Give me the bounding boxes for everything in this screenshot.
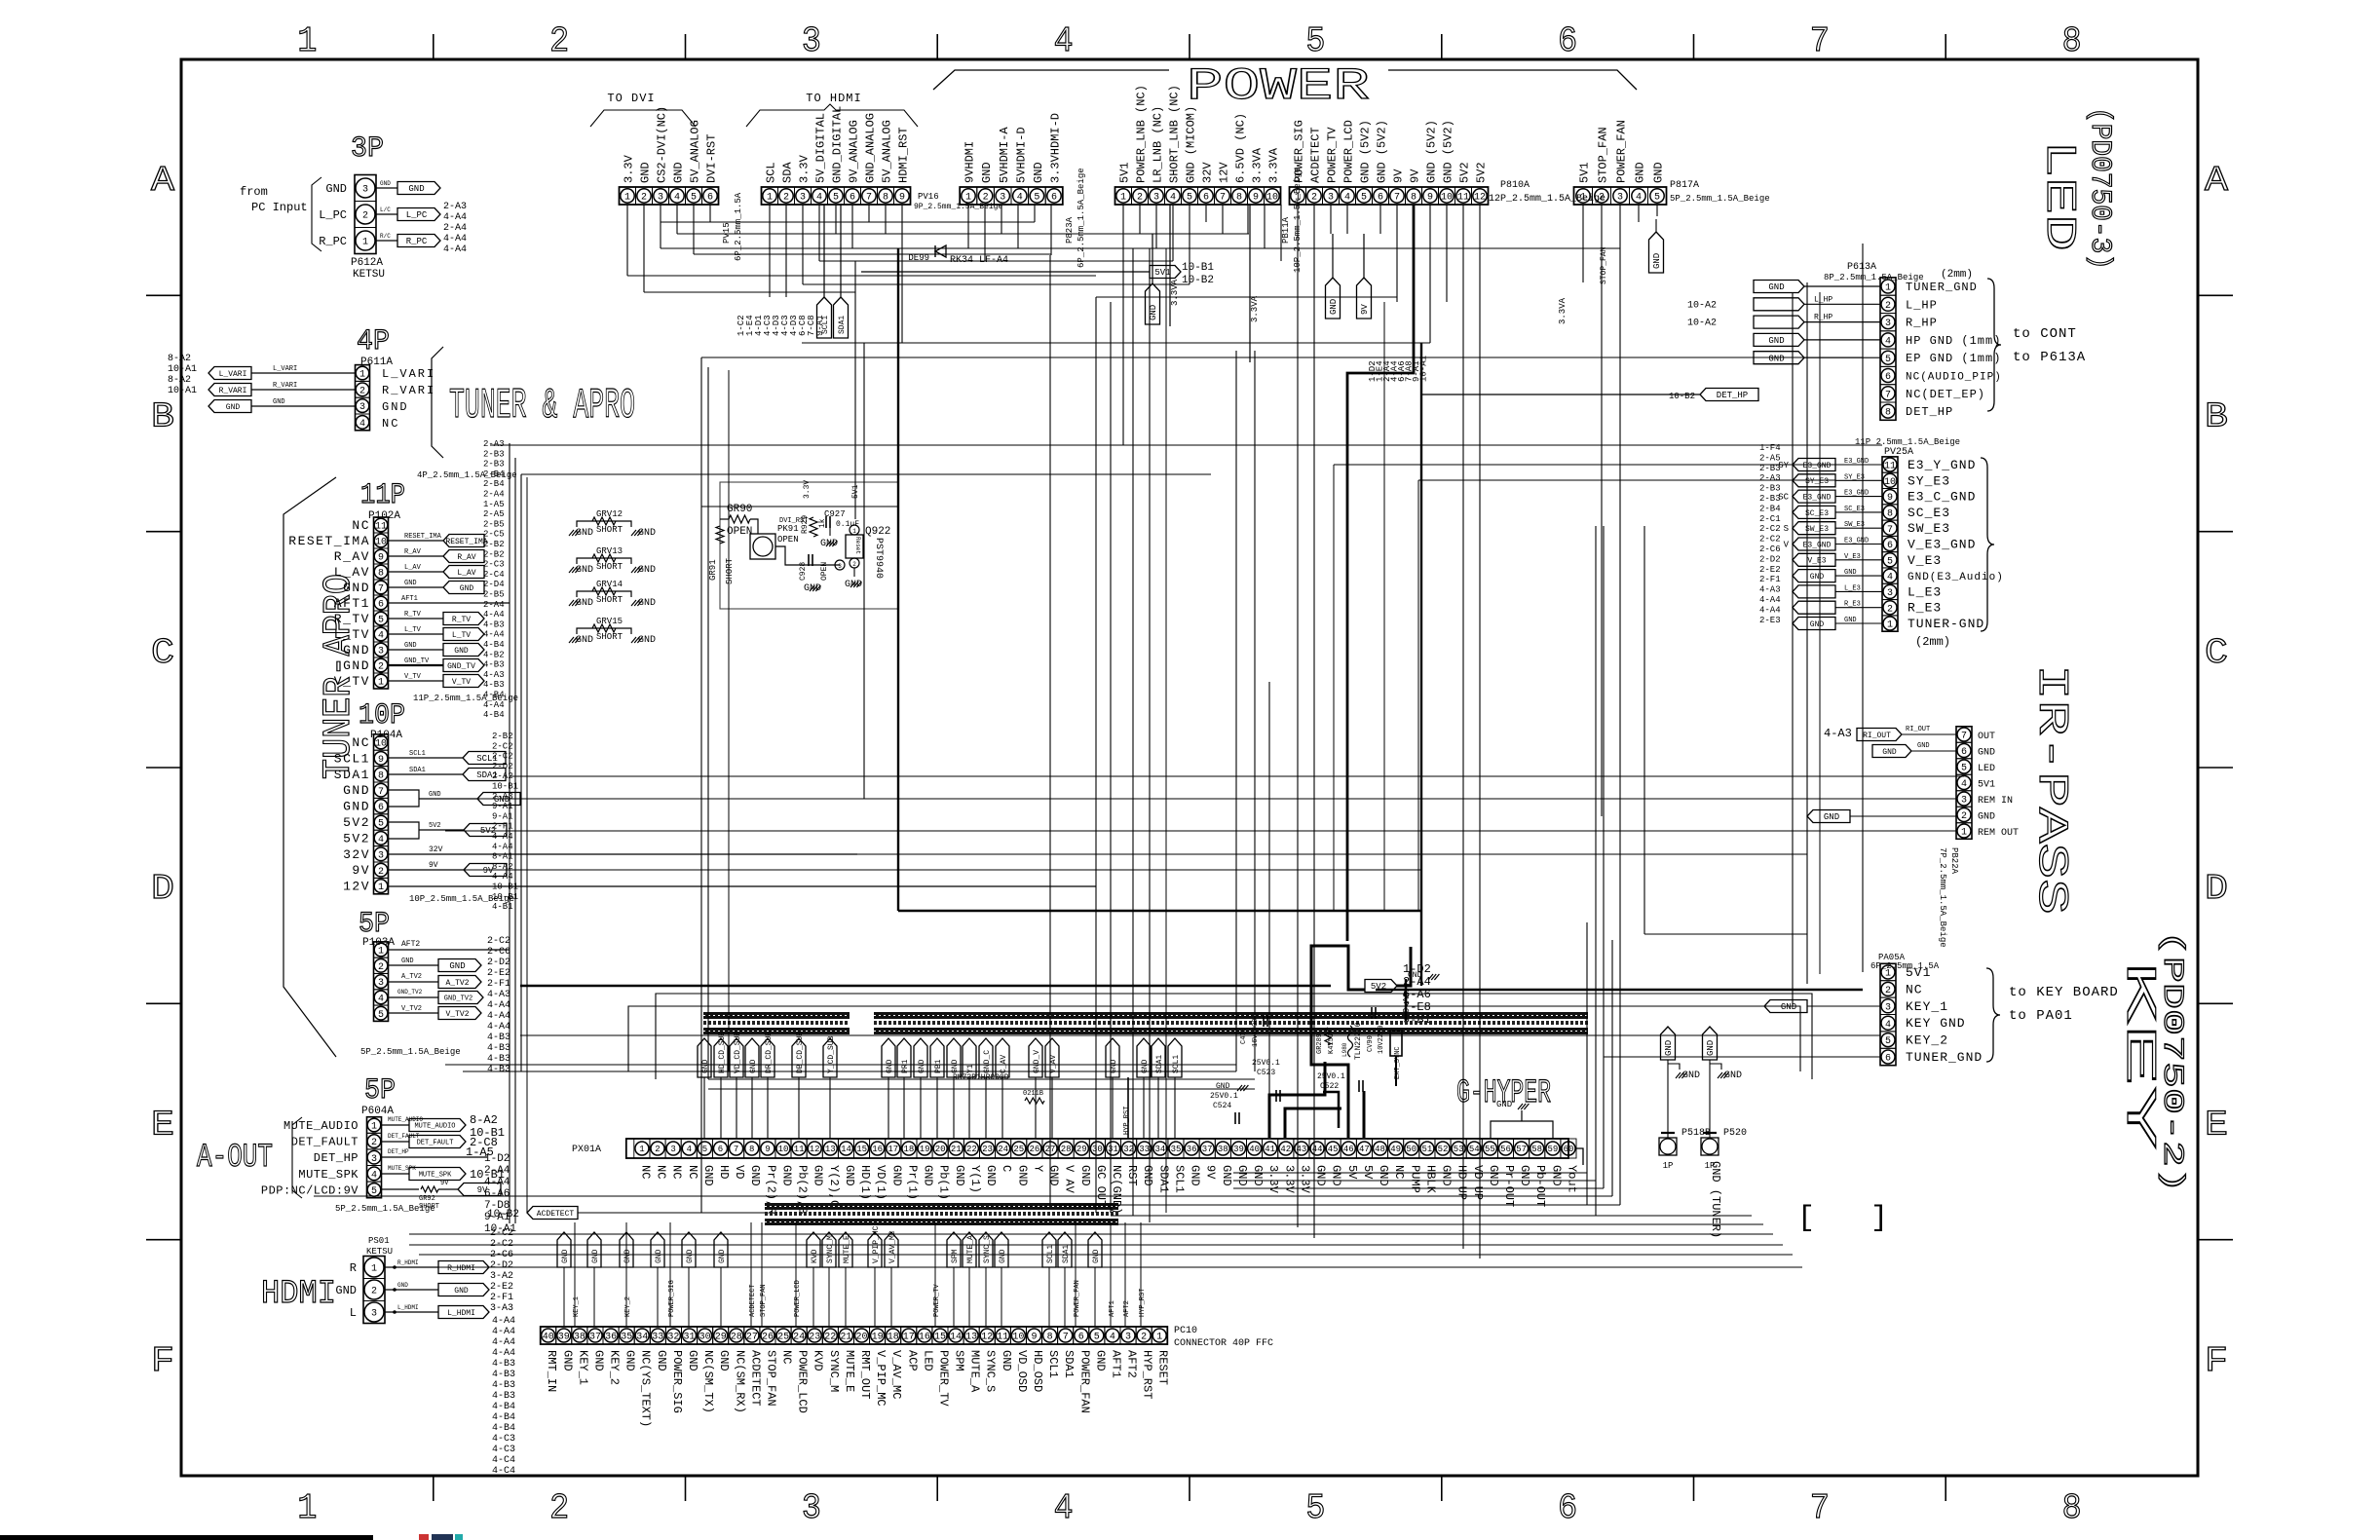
svg-text:C524: C524 bbox=[1213, 1102, 1231, 1110]
svg-text:]: ] bbox=[1870, 1202, 1888, 1235]
svg-text:5: 5 bbox=[833, 193, 839, 204]
svg-text:V_TV2: V_TV2 bbox=[401, 1005, 422, 1013]
connector P810A 12P bbox=[1290, 120, 1606, 205]
svg-text:8: 8 bbox=[378, 569, 384, 580]
svg-text:3.3V: 3.3V bbox=[798, 154, 812, 183]
svg-text:26: 26 bbox=[1029, 1145, 1039, 1154]
svg-text:RESET_IMA: RESET_IMA bbox=[445, 538, 487, 546]
svg-text:7: 7 bbox=[1885, 390, 1891, 400]
svg-text:ACP: ACP bbox=[905, 1350, 919, 1371]
svg-text:8: 8 bbox=[1885, 408, 1891, 419]
svg-text:14: 14 bbox=[841, 1145, 851, 1154]
svg-text:GND: GND bbox=[449, 961, 465, 971]
svg-text:4-C4: 4-C4 bbox=[492, 1466, 515, 1477]
svg-text:4: 4 bbox=[1636, 193, 1642, 204]
svg-text:38: 38 bbox=[574, 1333, 586, 1343]
svg-text:4: 4 bbox=[1887, 573, 1893, 583]
svg-text:GND: GND bbox=[1496, 1100, 1512, 1109]
svg-text:22: 22 bbox=[966, 1145, 977, 1154]
svg-text:C522: C522 bbox=[1320, 1082, 1339, 1091]
svg-text:R_AV: R_AV bbox=[457, 553, 475, 562]
svg-text:26: 26 bbox=[762, 1333, 774, 1343]
svg-text:GRV13: GRV13 bbox=[596, 546, 623, 556]
svg-text:12P_2.5mm_1.5A_Beige: 12P_2.5mm_1.5A_Beige bbox=[1489, 193, 1606, 205]
svg-text:GND (5V2): GND (5V2) bbox=[1425, 120, 1439, 183]
svg-text:SC_E3: SC_E3 bbox=[1805, 509, 1829, 518]
svg-text:1: 1 bbox=[359, 370, 365, 381]
svg-text:Pr-OUT: Pr-OUT bbox=[1502, 1165, 1516, 1207]
svg-text:5V_DIGITAL: 5V_DIGITAL bbox=[814, 113, 828, 183]
svg-text:7-D8: 7-D8 bbox=[484, 1200, 510, 1212]
svg-text:GND: GND bbox=[1047, 1165, 1061, 1186]
svg-text:35: 35 bbox=[1171, 1145, 1182, 1154]
svg-text:GND: GND bbox=[1000, 1350, 1013, 1371]
svg-text:ACDETECT: ACDETECT bbox=[749, 1284, 757, 1317]
svg-text:V_E3_GND: V_E3_GND bbox=[1908, 538, 1976, 552]
svg-text:10: 10 bbox=[1266, 193, 1278, 204]
svg-text:9VHDMI: 9VHDMI bbox=[963, 141, 977, 183]
svg-text:AFT2: AFT2 bbox=[1125, 1350, 1139, 1378]
svg-text:NC: NC bbox=[1392, 1165, 1406, 1179]
svg-text:3P: 3P bbox=[351, 132, 384, 166]
title POWER bbox=[933, 61, 1637, 112]
svg-text:POWER_TV: POWER_TV bbox=[933, 1284, 941, 1317]
svg-text:3: 3 bbox=[1125, 1333, 1131, 1343]
svg-text:1: 1 bbox=[1885, 283, 1891, 294]
svg-text:3.3VA: 3.3VA bbox=[1267, 147, 1281, 183]
svg-text:L_TV: L_TV bbox=[404, 626, 422, 634]
title KEY (PD0750-2) bbox=[2114, 930, 2188, 1193]
svg-text:7P_2.5mm_1.5A_Beige: 7P_2.5mm_1.5A_Beige bbox=[1938, 847, 1947, 948]
svg-text:4: 4 bbox=[1170, 193, 1176, 204]
svg-text:34: 34 bbox=[1154, 1145, 1165, 1154]
svg-text:SY_E3: SY_E3 bbox=[1844, 473, 1865, 481]
svg-text:GND: GND bbox=[460, 584, 474, 593]
svg-text:E3_GND: E3_GND bbox=[1844, 458, 1869, 466]
svg-text:GND: GND bbox=[686, 1249, 695, 1263]
svg-text:SCL: SCL bbox=[765, 162, 778, 183]
svg-text:SCL1: SCL1 bbox=[1172, 1055, 1181, 1073]
svg-text:GND: GND bbox=[1634, 162, 1647, 183]
svg-text:GND_V: GND_V bbox=[1033, 1050, 1041, 1073]
FFC cable band lower bbox=[765, 1203, 1118, 1225]
svg-text:IR-PASS: IR-PASS bbox=[2026, 664, 2075, 915]
svg-text:10-A2: 10-A2 bbox=[1687, 319, 1717, 329]
svg-text:GND_TV2: GND_TV2 bbox=[444, 995, 472, 1003]
svg-text:GND_TV: GND_TV bbox=[447, 662, 475, 671]
svg-text:3.3V: 3.3V bbox=[623, 154, 636, 183]
svg-text:16: 16 bbox=[919, 1333, 930, 1343]
svg-text:4-B3: 4-B3 bbox=[492, 1380, 515, 1391]
svg-text:4-A4: 4-A4 bbox=[443, 212, 467, 223]
svg-text:5: 5 bbox=[1094, 1333, 1100, 1343]
svg-text:9: 9 bbox=[1427, 193, 1433, 204]
svg-text:GND: GND bbox=[820, 539, 838, 549]
svg-text:GND: GND bbox=[672, 162, 686, 183]
svg-text:1: 1 bbox=[371, 1122, 377, 1133]
svg-text:2: 2 bbox=[783, 193, 789, 204]
svg-text:4: 4 bbox=[1054, 1488, 1074, 1528]
svg-text:GND: GND bbox=[343, 643, 370, 657]
svg-text:V_E3: V_E3 bbox=[1807, 557, 1826, 566]
svg-text:3: 3 bbox=[359, 402, 365, 413]
svg-text:4-A4: 4-A4 bbox=[483, 700, 505, 710]
connector PC10 40P FFC bbox=[541, 1326, 1273, 1427]
svg-text:2-D4: 2-D4 bbox=[483, 580, 505, 589]
svg-text:25: 25 bbox=[777, 1333, 789, 1343]
svg-text:8: 8 bbox=[378, 770, 384, 781]
svg-text:SCL1: SCL1 bbox=[821, 316, 830, 334]
svg-text:V_AV_MC: V_AV_MC bbox=[888, 1230, 897, 1263]
svg-text:2-C1: 2-C1 bbox=[1759, 514, 1781, 524]
svg-text:2-A3: 2-A3 bbox=[443, 202, 467, 212]
svg-text:GND: GND bbox=[812, 1165, 825, 1186]
svg-text:REM OUT: REM OUT bbox=[1978, 828, 2019, 839]
svg-text:9: 9 bbox=[378, 755, 384, 766]
svg-text:NC: NC bbox=[780, 1350, 794, 1364]
svg-text:SW_E3: SW_E3 bbox=[1908, 521, 1950, 536]
svg-text:8-A2: 8-A2 bbox=[168, 375, 191, 386]
wire mesh (power/signal routing) bbox=[314, 205, 1964, 1267]
svg-text:10: 10 bbox=[375, 739, 387, 750]
svg-text:GND: GND bbox=[845, 580, 862, 590]
svg-text:4: 4 bbox=[816, 193, 822, 204]
svg-text:3-A2: 3-A2 bbox=[490, 1271, 513, 1282]
connector P604A 5P (A-OUT) bbox=[261, 1074, 505, 1214]
svg-text:HD: HD bbox=[717, 1165, 731, 1179]
svg-text:F: F bbox=[2205, 1341, 2228, 1381]
svg-text:GND: GND bbox=[1015, 1165, 1029, 1186]
svg-text:4: 4 bbox=[1344, 193, 1350, 204]
svg-text:56: 56 bbox=[1500, 1145, 1511, 1154]
svg-text:L_TV: L_TV bbox=[452, 631, 471, 640]
svg-text:GND: GND bbox=[984, 1165, 998, 1186]
svg-text:7: 7 bbox=[1961, 732, 1967, 742]
svg-text:32: 32 bbox=[1123, 1145, 1134, 1154]
svg-text:(PD0750-2): (PD0750-2) bbox=[2155, 930, 2188, 1193]
svg-text:2-A5: 2-A5 bbox=[1759, 453, 1781, 463]
svg-text:25V0.1: 25V0.1 bbox=[1252, 1059, 1280, 1068]
svg-text:5P_2.5mm_1.5A_Beige: 5P_2.5mm_1.5A_Beige bbox=[360, 1047, 461, 1057]
svg-text:31: 31 bbox=[683, 1333, 695, 1343]
svg-text:MUTE_E: MUTE_E bbox=[843, 1350, 856, 1392]
svg-text:6: 6 bbox=[1078, 1333, 1084, 1343]
svg-text:GND: GND bbox=[226, 403, 241, 412]
svg-text:2: 2 bbox=[549, 1488, 569, 1528]
svg-text:GND: GND bbox=[343, 783, 370, 798]
svg-text:AFT1: AFT1 bbox=[334, 596, 370, 611]
svg-text:27: 27 bbox=[746, 1333, 758, 1343]
svg-text:SW_E3: SW_E3 bbox=[1805, 525, 1829, 534]
svg-text:4-A4: 4-A4 bbox=[443, 234, 467, 244]
svg-text:19: 19 bbox=[920, 1145, 930, 1154]
svg-text:GND: GND bbox=[638, 528, 656, 539]
svg-text:S: S bbox=[1784, 524, 1789, 534]
svg-text:F: F bbox=[151, 1341, 174, 1381]
svg-text:5: 5 bbox=[1187, 193, 1192, 204]
svg-text:C_AV: C_AV bbox=[1000, 1055, 1008, 1073]
svg-text:RESET_IMA: RESET_IMA bbox=[288, 534, 370, 548]
svg-text:GND: GND bbox=[701, 1165, 715, 1186]
svg-text:GND: GND bbox=[843, 1165, 856, 1186]
svg-text:L_VARI: L_VARI bbox=[382, 367, 435, 381]
svg-text:1P: 1P bbox=[1663, 1161, 1674, 1171]
svg-text:3: 3 bbox=[670, 1145, 675, 1154]
svg-text:3: 3 bbox=[1885, 319, 1891, 329]
svg-text:MUTE_AUDIO: MUTE_AUDIO bbox=[388, 1116, 423, 1123]
svg-text:GND: GND bbox=[889, 1165, 903, 1186]
svg-text:4-A4: 4-A4 bbox=[1759, 595, 1781, 605]
svg-text:POWER_LNB (NC): POWER_LNB (NC) bbox=[1135, 85, 1149, 183]
svg-text:2: 2 bbox=[1885, 986, 1891, 996]
svg-text:STOP_FAN: STOP_FAN bbox=[1600, 246, 1608, 284]
svg-text:2: 2 bbox=[378, 662, 384, 673]
svg-text:8: 8 bbox=[749, 1145, 754, 1154]
svg-text:3: 3 bbox=[802, 1488, 821, 1528]
svg-text:VD_OSD: VD_OSD bbox=[1015, 1350, 1029, 1392]
svg-text:5: 5 bbox=[1885, 355, 1891, 365]
svg-text:4-B3: 4-B3 bbox=[487, 1065, 510, 1075]
svg-text:R_E3: R_E3 bbox=[1844, 601, 1861, 609]
svg-text:13: 13 bbox=[825, 1145, 836, 1154]
svg-text:50: 50 bbox=[1406, 1145, 1417, 1154]
svg-text:GND: GND bbox=[1549, 1165, 1563, 1186]
svg-text:CV90: CV90 bbox=[1367, 1035, 1375, 1052]
svg-text:MUTE_SPK: MUTE_SPK bbox=[419, 1172, 452, 1180]
svg-text:L_AV: L_AV bbox=[404, 564, 422, 572]
svg-text:DB_CD_SUB: DB_CD_SUB bbox=[796, 1032, 805, 1073]
svg-text:R_AV: R_AV bbox=[404, 548, 422, 556]
svg-text:SDA1: SDA1 bbox=[409, 767, 426, 774]
svg-text:1: 1 bbox=[1580, 193, 1586, 204]
svg-text:RESET: RESET bbox=[1156, 1350, 1170, 1385]
svg-text:Y(2),G: Y(2),G bbox=[827, 1165, 841, 1207]
svg-text:4: 4 bbox=[371, 1170, 377, 1181]
svg-text:HDMI: HDMI bbox=[261, 1276, 336, 1313]
connector P102A 11P bbox=[288, 479, 518, 703]
svg-text:PV16: PV16 bbox=[918, 192, 939, 202]
svg-text:R_HDMI: R_HDMI bbox=[397, 1259, 419, 1266]
svg-text:V_TV: V_TV bbox=[452, 678, 471, 687]
svg-text:OPEN: OPEN bbox=[727, 526, 752, 538]
svg-text:GND: GND bbox=[1682, 1070, 1700, 1081]
svg-text:10-A1: 10-A1 bbox=[168, 386, 197, 396]
svg-text:RI_OUT: RI_OUT bbox=[1906, 726, 1930, 733]
svg-text:SCL1: SCL1 bbox=[409, 750, 426, 758]
svg-text:8: 8 bbox=[2062, 21, 2082, 61]
svg-text:39: 39 bbox=[1233, 1145, 1244, 1154]
svg-text:2: 2 bbox=[359, 386, 365, 396]
svg-text:R_HDMI: R_HDMI bbox=[447, 1264, 475, 1273]
svg-text:D: D bbox=[2205, 869, 2228, 909]
svg-text:12: 12 bbox=[981, 1333, 993, 1343]
net reference column (center right) bbox=[1368, 356, 1429, 382]
svg-text:DET_HP: DET_HP bbox=[1717, 391, 1748, 400]
svg-text:V: V bbox=[1784, 541, 1790, 550]
svg-text:2-A4: 2-A4 bbox=[483, 600, 505, 610]
svg-text:54: 54 bbox=[1469, 1145, 1480, 1154]
svg-text:7: 7 bbox=[1810, 21, 1830, 61]
resistor network GRV14 SHORT bbox=[569, 580, 656, 609]
svg-text:1: 1 bbox=[852, 528, 856, 535]
svg-text:GND: GND bbox=[1440, 1165, 1454, 1186]
svg-text:GND: GND bbox=[1768, 282, 1784, 292]
svg-text:SPM: SPM bbox=[953, 1350, 966, 1371]
svg-text:R_TV: R_TV bbox=[404, 611, 422, 619]
svg-text:58: 58 bbox=[1531, 1145, 1542, 1154]
svg-text:2-E2: 2-E2 bbox=[490, 1282, 513, 1293]
svg-text:9: 9 bbox=[1887, 493, 1893, 504]
svg-text:5V1: 5V1 bbox=[1154, 268, 1170, 278]
svg-text:9: 9 bbox=[378, 553, 384, 564]
svg-text:GND: GND bbox=[748, 1165, 762, 1186]
svg-text:A: A bbox=[151, 161, 174, 201]
svg-text:HD UP: HD UP bbox=[1455, 1165, 1469, 1200]
svg-text:6: 6 bbox=[1558, 1488, 1577, 1528]
svg-text:53: 53 bbox=[1454, 1145, 1464, 1154]
svg-text:L_HDMI: L_HDMI bbox=[447, 1309, 475, 1318]
svg-text:GND: GND bbox=[429, 791, 441, 799]
svg-text:HYP_RST: HYP_RST bbox=[1123, 1107, 1131, 1135]
svg-text:5V1: 5V1 bbox=[1906, 965, 1931, 980]
svg-text:GND (5V2): GND (5V2) bbox=[1359, 120, 1373, 183]
svg-text:A-OUT: A-OUT bbox=[197, 1140, 273, 1177]
svg-text:57: 57 bbox=[1516, 1145, 1527, 1154]
svg-text:18: 18 bbox=[903, 1145, 914, 1154]
svg-text:CONNECTOR 40P FFC: CONNECTOR 40P FFC bbox=[1174, 1338, 1273, 1349]
svg-text:2-B3: 2-B3 bbox=[483, 460, 505, 470]
svg-text:2-C2: 2-C2 bbox=[487, 936, 510, 947]
svg-text:GND_TV: GND_TV bbox=[404, 657, 430, 665]
svg-text:4-B3: 4-B3 bbox=[483, 660, 505, 670]
svg-text:GND: GND bbox=[343, 658, 370, 673]
svg-text:L980: L980 bbox=[1341, 1042, 1348, 1057]
svg-text:10-B1: 10-B1 bbox=[1182, 262, 1214, 274]
svg-text:DET_HP: DET_HP bbox=[314, 1151, 359, 1165]
svg-text:7: 7 bbox=[866, 193, 872, 204]
svg-text:6: 6 bbox=[1887, 541, 1893, 551]
svg-text:2: 2 bbox=[362, 211, 368, 222]
svg-text:GND: GND bbox=[623, 1249, 632, 1263]
svg-text:2-B3: 2-B3 bbox=[1759, 494, 1781, 504]
svg-text:6: 6 bbox=[378, 803, 384, 813]
svg-text:46: 46 bbox=[1343, 1145, 1354, 1154]
svg-text:GND: GND bbox=[953, 1165, 966, 1186]
svg-text:V_E3: V_E3 bbox=[1908, 553, 1942, 568]
svg-text:GND: GND bbox=[408, 184, 424, 194]
svg-text:16V1000: 16V1000 bbox=[1252, 1019, 1260, 1047]
svg-text:4-B3: 4-B3 bbox=[492, 1391, 515, 1402]
svg-text:CS2-DVI(NC): CS2-DVI(NC) bbox=[656, 106, 669, 183]
svg-text:9V: 9V bbox=[1392, 169, 1406, 183]
svg-text:Y(1): Y(1) bbox=[968, 1165, 982, 1193]
svg-text:P817A: P817A bbox=[1670, 180, 1699, 191]
svg-text:4-A4: 4-A4 bbox=[483, 630, 505, 640]
svg-text:(2mm): (2mm) bbox=[1941, 269, 1973, 281]
svg-text:2-C3: 2-C3 bbox=[483, 560, 505, 570]
svg-text:4-B3: 4-B3 bbox=[492, 1370, 515, 1380]
svg-text:1: 1 bbox=[1120, 193, 1126, 204]
flag GND below P810A bbox=[1326, 234, 1341, 319]
svg-text:R: R bbox=[350, 1261, 357, 1275]
svg-text:MUTE_SPK: MUTE_SPK bbox=[298, 1168, 359, 1182]
push button P520 bbox=[1701, 1027, 1747, 1171]
svg-text:NC(AUDIO_PIP): NC(AUDIO_PIP) bbox=[1906, 372, 2002, 384]
flag 5V2 with references bbox=[1365, 962, 1431, 1027]
svg-text:GND: GND bbox=[1781, 1002, 1796, 1012]
svg-text:C: C bbox=[151, 633, 174, 673]
svg-text:1: 1 bbox=[297, 21, 317, 61]
title TUNER & APRO bbox=[432, 347, 635, 458]
svg-text:SHORT: SHORT bbox=[725, 557, 735, 584]
svg-text:4-A3: 4-A3 bbox=[483, 670, 505, 680]
svg-text:5P_2.5mm_1.5A_Beige: 5P_2.5mm_1.5A_Beige bbox=[335, 1204, 435, 1214]
svg-text:1: 1 bbox=[624, 193, 630, 204]
svg-text:P823A: P823A bbox=[1065, 216, 1075, 244]
svg-text:TUNER_GND: TUNER_GND bbox=[1906, 281, 1978, 294]
svg-text:7: 7 bbox=[378, 787, 384, 798]
svg-text:PS01: PS01 bbox=[368, 1236, 390, 1246]
resistor network GRV12 SHORT bbox=[569, 509, 656, 539]
svg-text:9V_ANALOG: 9V_ANALOG bbox=[848, 120, 861, 183]
svg-text:MUTE_A: MUTE_A bbox=[968, 1350, 982, 1393]
svg-text:GND: GND bbox=[1032, 162, 1045, 183]
svg-text:KEY_1: KEY_1 bbox=[1906, 999, 1948, 1014]
svg-text:P613A: P613A bbox=[1847, 262, 1876, 273]
svg-text:L/C: L/C bbox=[380, 207, 391, 213]
svg-text:GND_ANALOG: GND_ANALOG bbox=[864, 113, 878, 183]
svg-text:1: 1 bbox=[378, 883, 384, 893]
svg-text:4-A4: 4-A4 bbox=[487, 1000, 510, 1011]
svg-text:B: B bbox=[2205, 397, 2228, 437]
svg-text:GND: GND bbox=[780, 1165, 794, 1186]
svg-text:52: 52 bbox=[1438, 1145, 1449, 1154]
svg-text:12V: 12V bbox=[343, 880, 370, 894]
flags above PX01A left group bbox=[698, 1032, 837, 1139]
svg-text:40: 40 bbox=[543, 1333, 554, 1343]
svg-text:28: 28 bbox=[731, 1333, 742, 1343]
svg-text:HD_OSD: HD_OSD bbox=[1031, 1350, 1044, 1392]
svg-text:E3_GND: E3_GND bbox=[1844, 538, 1869, 545]
svg-text:4-A3: 4-A3 bbox=[1759, 585, 1781, 595]
svg-text:10-B1: 10-B1 bbox=[492, 782, 518, 792]
svg-text:4-B3: 4-B3 bbox=[483, 620, 505, 629]
svg-text:3.3VA: 3.3VA bbox=[1250, 295, 1260, 322]
svg-text:2-C4: 2-C4 bbox=[483, 570, 505, 580]
svg-text:Pb(1): Pb(1) bbox=[937, 1165, 951, 1200]
svg-text:SCL1: SCL1 bbox=[1046, 1350, 1060, 1378]
svg-text:GND: GND bbox=[1724, 1070, 1742, 1081]
svg-text:2-C5: 2-C5 bbox=[483, 530, 505, 540]
svg-text:GND: GND bbox=[638, 635, 656, 646]
svg-text:2-B4: 2-B4 bbox=[1759, 504, 1781, 513]
svg-text:R/C: R/C bbox=[380, 233, 391, 240]
svg-text:Reset: Reset bbox=[854, 537, 861, 554]
svg-text:2: 2 bbox=[1141, 1333, 1147, 1343]
svg-text:2: 2 bbox=[852, 561, 856, 568]
svg-text:GND: GND bbox=[1149, 305, 1158, 320]
svg-text:MUTE_AUDIO: MUTE_AUDIO bbox=[283, 1119, 359, 1133]
svg-text:SYNC_S: SYNC_S bbox=[984, 1350, 998, 1392]
svg-text:3: 3 bbox=[1617, 193, 1623, 204]
svg-text:GND: GND bbox=[1652, 253, 1662, 269]
svg-text:7: 7 bbox=[378, 584, 384, 595]
svg-text:10-A1: 10-A1 bbox=[168, 364, 197, 375]
svg-text:33: 33 bbox=[652, 1333, 663, 1343]
flag 5V1 10-B1/10-B2 bbox=[861, 262, 1214, 286]
svg-text:GND: GND bbox=[1844, 569, 1857, 577]
svg-text:D: D bbox=[151, 869, 174, 909]
